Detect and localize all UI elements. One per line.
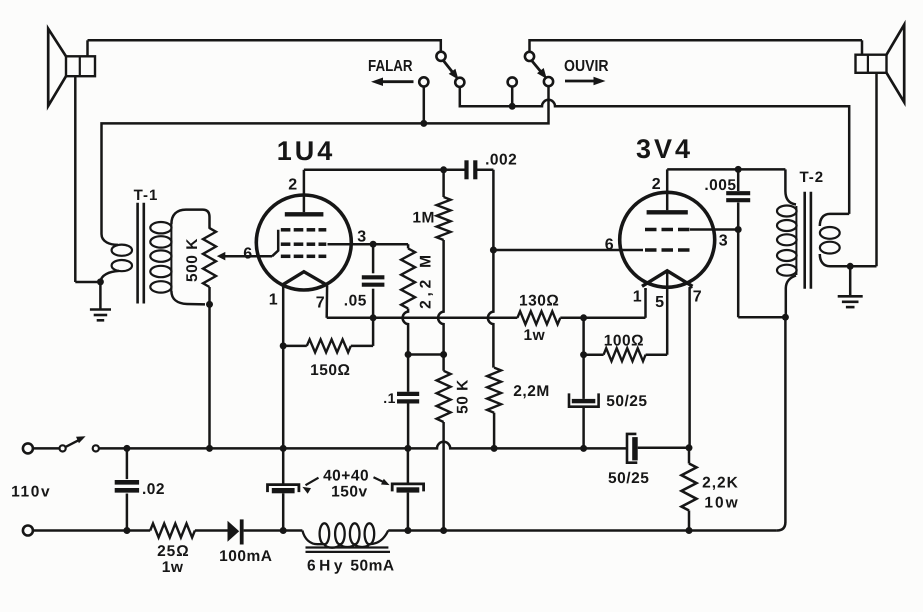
svg-text:T-1: T-1 <box>134 187 159 204</box>
svg-text:.002: .002 <box>485 151 517 168</box>
svg-text:.02: .02 <box>142 481 165 498</box>
svg-text:3: 3 <box>719 233 728 250</box>
svg-text:1M: 1M <box>412 210 435 227</box>
svg-text:50/25: 50/25 <box>606 393 647 410</box>
svg-text:5: 5 <box>655 294 664 311</box>
svg-text:500 K: 500 K <box>184 238 201 282</box>
svg-text:150Ω: 150Ω <box>310 362 350 379</box>
svg-text:1: 1 <box>269 292 278 309</box>
svg-text:100mA: 100mA <box>219 548 272 565</box>
svg-text:110v: 110v <box>11 484 51 501</box>
svg-text:100Ω: 100Ω <box>604 333 644 350</box>
svg-text:2: 2 <box>652 176 661 193</box>
svg-text:1w: 1w <box>162 559 184 576</box>
svg-text:1w: 1w <box>523 327 545 344</box>
svg-text:FALAR: FALAR <box>368 58 413 75</box>
svg-text:.005: .005 <box>704 177 736 194</box>
svg-text:7: 7 <box>316 295 325 312</box>
svg-text:10w: 10w <box>704 495 739 512</box>
svg-text:6Hy: 6Hy <box>307 558 346 575</box>
svg-text:6: 6 <box>605 237 614 254</box>
svg-text:2,2 M: 2,2 M <box>418 251 435 309</box>
svg-text:25Ω: 25Ω <box>157 543 190 560</box>
svg-text:3V4: 3V4 <box>636 134 693 164</box>
svg-text:OUVIR: OUVIR <box>564 58 609 75</box>
svg-text:2: 2 <box>288 177 297 194</box>
svg-text:40+40: 40+40 <box>323 467 369 484</box>
svg-text:.05: .05 <box>344 293 367 310</box>
svg-text:3: 3 <box>357 229 366 246</box>
svg-text:130Ω: 130Ω <box>519 293 559 310</box>
svg-text:6: 6 <box>243 246 252 263</box>
svg-text:50/25: 50/25 <box>608 470 649 487</box>
svg-text:1: 1 <box>633 289 642 306</box>
svg-text:50 K: 50 K <box>455 379 472 414</box>
svg-text:2,2K: 2,2K <box>702 475 739 492</box>
svg-text:.1: .1 <box>383 390 396 406</box>
svg-text:T-2: T-2 <box>799 169 824 186</box>
svg-text:150v: 150v <box>331 484 367 501</box>
svg-text:7: 7 <box>693 289 702 306</box>
svg-text:50mA: 50mA <box>350 558 394 575</box>
svg-text:1U4: 1U4 <box>277 136 336 166</box>
svg-text:2,2M: 2,2M <box>513 383 549 400</box>
